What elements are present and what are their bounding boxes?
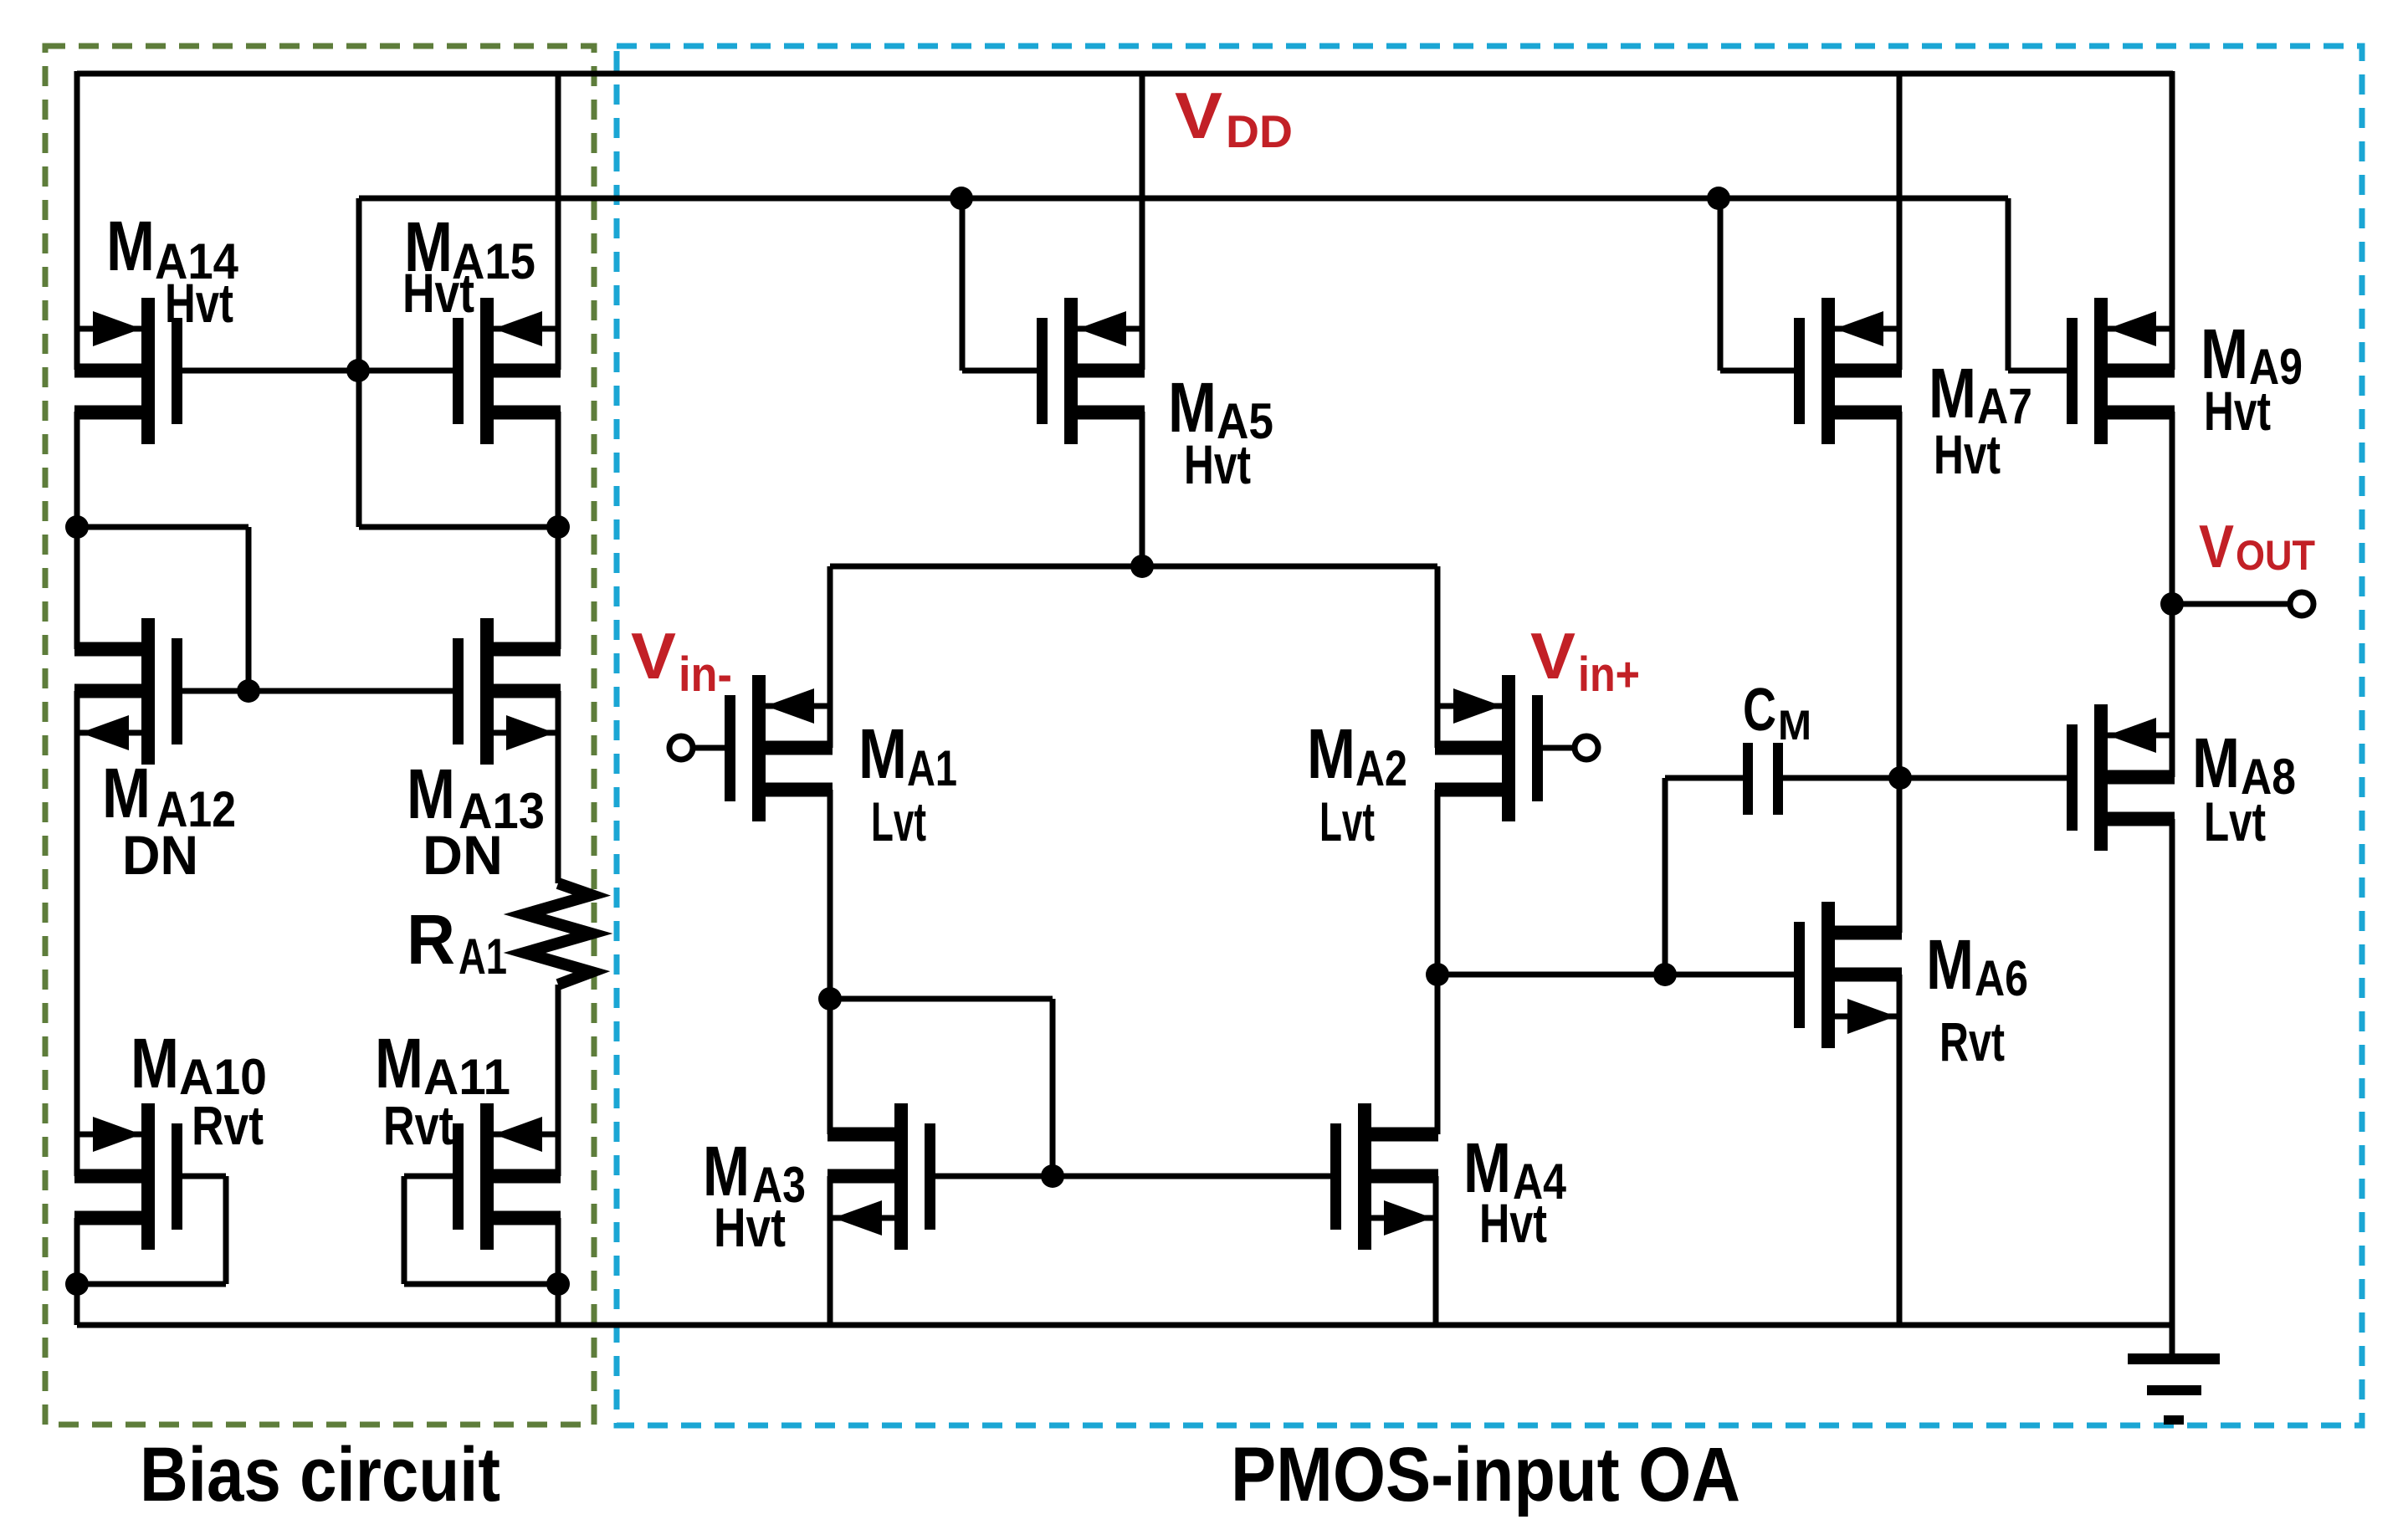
node junction dot node E (MA10 drain+gate)	[65, 1272, 89, 1296]
svg-text:OUT: OUT	[2236, 532, 2315, 579]
svg-text:in-: in-	[679, 647, 732, 702]
wire: MA12 gate to MA13 gate	[182, 688, 453, 694]
wire: bias line to MA7 gate	[1718, 198, 1724, 371]
label MA15	[402, 207, 535, 324]
svg-text:Hvt: Hvt	[1184, 433, 1251, 495]
wire: node G to MA3 drain	[827, 999, 833, 1134]
wire: VDD corner to MA9 source	[2170, 71, 2175, 370]
svg-text:Hvt: Hvt	[165, 272, 233, 334]
node junction dot node B (MA15 drain / MA13 drain)	[546, 515, 570, 539]
svg-text:A2: A2	[1355, 740, 1407, 796]
svg-text:M: M	[407, 755, 455, 833]
node junction dot mirror gate node	[1041, 1164, 1064, 1188]
svg-text:M: M	[1778, 702, 1811, 749]
svg-text:Hvt: Hvt	[1934, 423, 2001, 485]
svg-text:Lvt: Lvt	[2204, 790, 2266, 852]
svg-text:Hvt: Hvt	[402, 262, 474, 324]
label MA7	[1929, 354, 2032, 485]
transistor MA14 (Hvt PMOS, bias)	[74, 298, 182, 444]
wire: node E to ground rail	[74, 1284, 80, 1325]
wire: VOUT tap	[2172, 601, 2290, 607]
svg-text:Rvt: Rvt	[192, 1094, 264, 1156]
wire: MA9 drain to VOUT node	[2170, 412, 2175, 604]
svg-text:V: V	[1175, 79, 1222, 152]
transistor MA8 (Lvt PMOS)	[2067, 704, 2175, 851]
wire: MA11 drain to node F	[556, 1218, 561, 1325]
wire: MA2 gate to Vin+ port	[1543, 745, 1575, 751]
label Vin+	[1530, 619, 1640, 702]
wire: MA11 gate tie-down	[404, 1174, 453, 1179]
wire: node A to MA12 drain	[74, 527, 80, 649]
port terminal Vin+	[1575, 736, 1598, 760]
VDD top rail wire	[77, 71, 2173, 77]
node junction dot node C (MA14/MA15 gates)	[346, 359, 370, 382]
transistor MA7 (Hvt PMOS current source)	[1794, 298, 1902, 444]
capacitor CM	[1743, 743, 1783, 815]
svg-text:DN: DN	[122, 824, 198, 886]
label MA8	[2192, 724, 2296, 852]
ground symbol	[2128, 1325, 2220, 1425]
svg-text:A1: A1	[907, 740, 957, 796]
label RA1	[407, 900, 507, 985]
wire: tail down to MA2 source	[1435, 566, 1441, 748]
port terminal Vin-	[669, 736, 693, 760]
svg-text:Lvt: Lvt	[1319, 790, 1375, 852]
wire: node A to MA12 gate branch	[77, 524, 248, 530]
wire: MA12 source to MA10 source	[74, 691, 80, 1176]
transistor MA4 (Hvt NMOS mirror)	[1330, 1103, 1438, 1250]
svg-text:DN: DN	[423, 824, 503, 886]
label MA14	[106, 207, 239, 334]
wire: node B to MA13 drain	[556, 527, 561, 649]
wire: VDD stem down to MA15 source	[556, 71, 561, 370]
label MA6	[1926, 925, 2028, 1072]
svg-text:DD: DD	[1226, 105, 1293, 157]
node junction dot node D (MA12/MA13 gates)	[237, 679, 260, 703]
transistor MA15 (Hvt PMOS, bias, diode-connected)	[453, 298, 561, 444]
node junction dot node H (MA2 drain)	[1426, 963, 1449, 986]
wire: MA6 source to ground	[1897, 975, 1903, 1325]
wire: MA8 drain to ground rail	[2170, 819, 2175, 1325]
transistor MA2 (Lvt PMOS input)	[1435, 675, 1543, 821]
svg-text:M: M	[1929, 354, 1976, 432]
wire: node C to MA15 gate	[359, 368, 453, 374]
dashed box: Bias circuit	[45, 46, 594, 1425]
wire: node H to MA6 gate	[1437, 972, 1794, 978]
transistor MA13 (DN depletion NMOS, bias)	[453, 618, 561, 765]
resistor RA1	[525, 883, 592, 985]
label MA5	[1168, 368, 1273, 495]
svg-text:M: M	[131, 1024, 179, 1103]
wire: MA5 drain to tail node	[1140, 412, 1145, 566]
node junction dot VOUT node	[2160, 592, 2184, 616]
wire: MA2 drain down to node H	[1435, 790, 1441, 975]
wire: Vin- port to MA1 gate	[693, 745, 725, 751]
node junction dot bias line to MA7 gate	[1707, 187, 1730, 210]
transistor MA5 (Hvt PMOS tail current source)	[1037, 298, 1145, 444]
label MA3	[703, 1132, 806, 1258]
wire: CM branch up from node I	[1663, 778, 1668, 975]
label MA1	[858, 714, 957, 852]
transistor MA11 (Rvt, bias)	[453, 1103, 561, 1250]
svg-text:A1: A1	[459, 929, 507, 985]
node junction dot node F (MA11 drain+gate)	[546, 1272, 570, 1296]
wire: node H to MA4 drain	[1435, 975, 1441, 1134]
wire: node G to mirror gate branch	[830, 996, 1053, 1002]
svg-text:R: R	[407, 900, 455, 979]
svg-text:V: V	[1530, 619, 1576, 693]
node junction dot tail node	[1130, 555, 1154, 578]
port terminal VOUT	[2290, 592, 2313, 616]
svg-text:Hvt: Hvt	[2204, 380, 2271, 442]
label MA10	[131, 1024, 267, 1156]
wire: CM right plate to node J	[1783, 775, 1900, 781]
label MA4	[1463, 1128, 1567, 1254]
label MA12	[102, 754, 236, 886]
node junction dot node A (MA14 drain / MA12 drain)	[65, 515, 89, 539]
label Vin-	[631, 619, 732, 702]
wire: differential pair tail	[830, 564, 1437, 570]
wire: VDD to MA7 source	[1897, 71, 1903, 370]
svg-text:Rvt: Rvt	[1939, 1010, 2005, 1072]
wire: MA3 source to ground	[827, 1176, 833, 1325]
wire: MA14 gate to node C	[182, 368, 359, 374]
wire: node F to ground rail	[556, 1284, 561, 1325]
label MA11	[375, 1024, 510, 1156]
node junction dot node J (MA7 drain / CM)	[1888, 766, 1912, 790]
wire: MA15 drain down to node B	[556, 412, 561, 527]
svg-text:Lvt: Lvt	[871, 790, 926, 852]
svg-text:Rvt: Rvt	[383, 1094, 453, 1156]
node junction dot node I (CM branch)	[1653, 963, 1677, 986]
wire: MA13 source to resistor RA1	[556, 691, 561, 883]
wire: node J to MA8 gate	[1900, 775, 2067, 781]
wire: VOUT node to MA8 source	[2170, 604, 2175, 777]
svg-text:C: C	[1743, 677, 1776, 744]
svg-text:M: M	[858, 714, 907, 793]
svg-text:in+: in+	[1578, 647, 1640, 702]
bias gate line wire (MA15 gate to MA5/MA7/MA9 gates)	[359, 196, 2008, 202]
ground bottom rail wire	[77, 1323, 2173, 1328]
label CM	[1743, 677, 1811, 749]
transistor MA3 (Hvt NMOS mirror)	[827, 1103, 935, 1250]
wire: VDD to MA14 source	[74, 71, 80, 370]
transistor MA12 (DN depletion NMOS, bias)	[74, 618, 182, 765]
node junction dot node G (MA1 drain)	[818, 987, 842, 1010]
wire: bias line to MA5 gate	[960, 198, 966, 371]
svg-text:M: M	[106, 207, 155, 285]
svg-text:M: M	[1307, 714, 1355, 793]
wire: MA7 drain down through node J to MA6 drain	[1897, 412, 1903, 933]
wire: MA4 source to ground	[1433, 1176, 1439, 1325]
wire: MA10 gate tie-down	[182, 1174, 226, 1179]
wire: MA10 drain to node E	[74, 1218, 80, 1325]
svg-text:A6: A6	[1975, 950, 2028, 1006]
label VOUT	[2199, 514, 2315, 581]
transistor MA6 (Rvt NMOS)	[1794, 902, 1902, 1048]
svg-text:V: V	[631, 619, 676, 693]
wire: tail down to MA1 source	[827, 566, 833, 748]
wire: MA14 drain down to node A	[74, 412, 80, 527]
svg-text:PMOS-input OA: PMOS-input OA	[1231, 1432, 1740, 1517]
wire: RA1 to MA11 source	[556, 985, 561, 1176]
svg-text:Hvt: Hvt	[1479, 1192, 1547, 1254]
label VDD	[1175, 79, 1293, 157]
svg-text:Bias circuit: Bias circuit	[140, 1432, 500, 1517]
dashed box: PMOS-input OA	[617, 46, 2362, 1425]
wire: VDD to MA5 source	[1140, 71, 1145, 370]
svg-text:Hvt: Hvt	[714, 1196, 786, 1258]
svg-text:M: M	[375, 1024, 423, 1103]
svg-text:M: M	[102, 754, 151, 832]
transistor MA9 (Hvt PMOS current source)	[2067, 298, 2175, 444]
label MA2	[1307, 714, 1407, 852]
transistor MA10 (Rvt, bias)	[74, 1103, 182, 1250]
wire: MA3 gate to MA4 gate	[935, 1174, 1330, 1179]
svg-text:M: M	[1926, 925, 1974, 1004]
transistor MA1 (Lvt PMOS input)	[725, 675, 833, 821]
node junction dot bias line to MA5 gate	[950, 187, 973, 210]
wire: MA9 gate feed	[2008, 368, 2067, 374]
svg-text:V: V	[2199, 514, 2234, 581]
label MA13	[407, 755, 545, 886]
label MA9	[2201, 315, 2303, 442]
wire: MA1 drain down to node G	[827, 790, 833, 999]
wire: node C down to node B (diode connection)	[356, 371, 362, 527]
